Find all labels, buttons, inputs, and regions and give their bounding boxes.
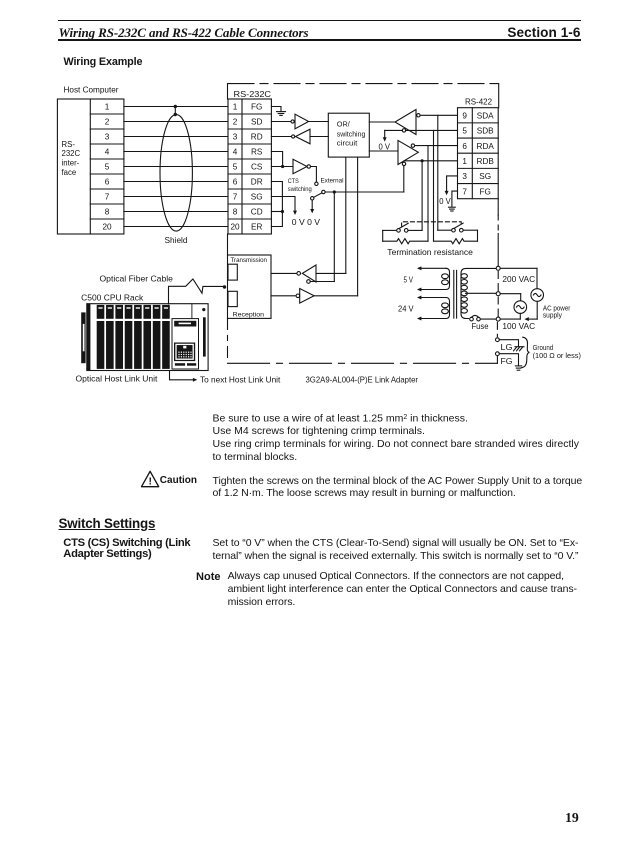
link adapter part label — [306, 376, 419, 385]
C500 CPU rack label — [81, 293, 144, 302]
switch settings heading — [59, 516, 156, 531]
optical reception receiver U8 — [271, 157, 358, 303]
svg-text:1: 1 — [105, 103, 110, 112]
200 VAC node — [496, 266, 500, 270]
svg-text:FG: FG — [480, 187, 491, 196]
svg-text:FG: FG — [251, 103, 262, 112]
svg-text:SDA: SDA — [477, 112, 494, 121]
to next host link unit arrow — [170, 371, 198, 382]
svg-text:Shield: Shield — [165, 236, 188, 245]
svg-text:6: 6 — [462, 142, 467, 151]
SDA wire — [420, 114, 457, 116]
transmission enable wire — [310, 192, 334, 282]
svg-text:RS-422: RS-422 — [465, 97, 492, 106]
svg-text:9: 9 — [462, 112, 467, 121]
RS-232C interface label — [62, 140, 81, 177]
svg-text:switching: switching — [337, 130, 366, 139]
CTS switching text — [213, 537, 579, 562]
svg-text:SD: SD — [251, 118, 262, 127]
transformer T1 5V secondary — [417, 266, 450, 291]
fuse F1 — [470, 315, 497, 320]
FG terminal wire — [499, 354, 518, 366]
svg-text:DR: DR — [251, 178, 263, 187]
svg-text:100 VAC: 100 VAC — [502, 321, 535, 331]
SDB termination wire — [433, 130, 435, 241]
svg-text:8: 8 — [233, 208, 238, 217]
svg-text:RD: RD — [251, 133, 263, 142]
svg-text:SDB: SDB — [477, 127, 494, 136]
svg-text:SG: SG — [251, 193, 263, 202]
svg-text:RS: RS — [251, 148, 263, 157]
svg-text:7: 7 — [233, 193, 238, 202]
svg-text:SG: SG — [479, 172, 491, 181]
RS to CS strap wire — [271, 152, 284, 169]
RD line receiver U2 — [271, 129, 328, 144]
LG chassis ground — [514, 347, 525, 351]
5 V label — [404, 276, 414, 285]
svg-text:7: 7 — [462, 187, 467, 196]
SDA termination wire — [437, 115, 439, 230]
link adapter dashed enclosure — [228, 84, 499, 364]
svg-text:6: 6 — [105, 178, 110, 187]
caution label — [160, 475, 197, 486]
optical fiber cable label — [100, 275, 174, 284]
svg-text:ER: ER — [251, 223, 262, 232]
transformer core — [454, 270, 457, 318]
FG terminal node — [496, 352, 500, 356]
shield label — [165, 236, 188, 245]
AC measurement dashed lines — [496, 272, 499, 337]
C500 CPU rack — [81, 304, 208, 371]
svg-text:Transmission: Transmission — [231, 257, 268, 264]
header bottom rule — [58, 39, 581, 42]
FG protective ground — [271, 107, 285, 116]
svg-text:0 V 0 V: 0 V 0 V — [292, 218, 321, 227]
svg-text:External: External — [321, 178, 344, 185]
svg-text:RDA: RDA — [477, 142, 495, 151]
OR/switching circuit U3 — [328, 113, 369, 157]
svg-text:inter-: inter- — [62, 159, 80, 168]
driver enable wire from CTS switch — [403, 166, 405, 192]
SDB wire — [406, 129, 458, 131]
svg-text:0 V: 0 V — [439, 197, 451, 206]
CS wire and CTS buffer U4 — [271, 159, 316, 181]
transformer primary — [461, 268, 497, 318]
AC return wires — [500, 301, 537, 321]
svg-text:232C: 232C — [62, 149, 81, 158]
header top rule — [58, 20, 581, 22]
RS-422 receiver U5 — [369, 110, 420, 135]
svg-text:CTS: CTS — [288, 178, 299, 185]
Ground label — [533, 345, 581, 360]
svg-text:OR/: OR/ — [337, 119, 350, 128]
AC source 200V — [531, 289, 544, 302]
svg-text:5 V: 5 V — [404, 276, 414, 285]
svg-text:1: 1 — [462, 157, 467, 166]
LG terminal wire — [499, 340, 518, 352]
caution text — [213, 475, 583, 500]
svg-text:CD: CD — [251, 208, 263, 217]
svg-text:6: 6 — [233, 178, 238, 187]
svg-text:0 V: 0 V — [379, 143, 391, 152]
RDA termination wire — [427, 146, 429, 242]
to next host link unit label — [200, 376, 281, 385]
FG to enclosure wire — [496, 356, 498, 364]
svg-text:FG: FG — [501, 356, 513, 366]
optical connector (reception) — [228, 291, 237, 306]
wires host to RS-232C connector — [124, 107, 228, 227]
svg-text:Host Computer: Host Computer — [64, 85, 119, 94]
ground brace — [521, 337, 529, 368]
svg-text:RDB: RDB — [477, 157, 495, 166]
svg-text:20: 20 — [102, 223, 112, 232]
page number — [565, 810, 579, 826]
svg-text:switching: switching — [288, 186, 312, 193]
fuse output node — [496, 317, 500, 321]
RS-232C connector box — [228, 99, 271, 234]
RS-422 connector label — [465, 97, 492, 106]
RS-422 connector box — [458, 108, 499, 199]
header section label — [0, 25, 581, 40]
svg-text:3: 3 — [462, 172, 467, 181]
svg-text:5: 5 — [233, 163, 238, 172]
RS-422 driver U6 — [369, 140, 418, 165]
svg-text:4: 4 — [105, 148, 110, 157]
svg-text:Ground: Ground — [533, 345, 554, 352]
RS-422 FG earth ground — [449, 191, 458, 211]
DR CD ER tie wire — [271, 182, 284, 227]
SG 0V wire — [271, 197, 297, 216]
note text — [228, 570, 577, 608]
termination switch S3 — [438, 223, 478, 232]
RDA wire — [415, 145, 458, 147]
optical host link unit label — [76, 374, 159, 383]
note label — [0, 571, 221, 583]
transmission reception unit box — [228, 255, 272, 319]
switch 0V arrow — [310, 200, 314, 213]
svg-text:4: 4 — [233, 148, 238, 157]
termination resistor R1 — [383, 230, 428, 243]
svg-text:face: face — [62, 168, 77, 177]
svg-text:(100 Ω or less): (100 Ω or less) — [533, 353, 581, 360]
24 V label — [398, 305, 414, 314]
fuse label — [472, 322, 489, 331]
svg-text:Reception: Reception — [233, 312, 265, 319]
svg-text:5: 5 — [105, 163, 110, 172]
100 VAC tap node — [496, 292, 500, 296]
AC power supply label — [543, 305, 571, 319]
200 VAC label — [502, 274, 535, 284]
0 V 0 V labels — [292, 218, 321, 227]
svg-text:3G2A9-AL004-(P)E Link Adapter: 3G2A9-AL004-(P)E Link Adapter — [306, 376, 419, 385]
svg-text:Optical Host Link Unit: Optical Host Link Unit — [76, 374, 159, 383]
100 VAC label — [502, 321, 535, 331]
svg-text:RS-: RS- — [62, 140, 76, 149]
SD line driver U1 — [271, 114, 328, 129]
body paragraph 1 — [213, 412, 579, 464]
svg-text:2: 2 — [105, 118, 110, 127]
transformer T1 24V secondary — [417, 296, 450, 321]
svg-text:200 VAC: 200 VAC — [502, 274, 535, 284]
LG terminal node — [496, 338, 500, 342]
svg-text:Termination resistance: Termination resistance — [387, 248, 473, 257]
FG earth ground — [515, 366, 521, 370]
svg-text:To next Host Link Unit: To next Host Link Unit — [200, 376, 281, 385]
termination dashed outline — [402, 222, 462, 227]
header title — [59, 25, 309, 41]
receiver 0V reference — [379, 130, 403, 151]
CTS selector switch S1 — [311, 182, 404, 200]
svg-text:supply: supply — [543, 313, 562, 320]
svg-text:circuit: circuit — [337, 138, 358, 147]
optical host link unit front — [172, 308, 206, 369]
svg-text:RS-232C: RS-232C — [234, 90, 272, 99]
optical connector (transmission) — [228, 264, 237, 280]
100 VAC wire to supply — [500, 294, 521, 301]
svg-text:3: 3 — [233, 133, 238, 142]
CTS switching label — [63, 538, 190, 560]
External label — [321, 178, 344, 185]
svg-text:7: 7 — [105, 193, 110, 202]
shield ellipse — [160, 105, 192, 231]
host computer interface box — [57, 99, 124, 234]
svg-text:5: 5 — [462, 127, 467, 136]
RS-422 SG 0V arrow — [439, 176, 457, 206]
RDB termination wire — [421, 161, 423, 231]
termination switch S2 — [383, 223, 422, 232]
svg-text:Fuse: Fuse — [472, 322, 489, 331]
200 VAC wire to supply — [500, 268, 537, 288]
svg-text:CS: CS — [251, 163, 263, 172]
svg-text:8: 8 — [105, 208, 110, 217]
RS-232C connector label — [234, 90, 272, 99]
svg-text:1: 1 — [233, 103, 238, 112]
RDB wire — [404, 159, 457, 162]
svg-text:3: 3 — [105, 133, 110, 142]
wiring example heading — [64, 56, 143, 68]
svg-text:AC power: AC power — [543, 305, 571, 312]
svg-text:LG: LG — [501, 342, 513, 352]
svg-text:20: 20 — [230, 223, 240, 232]
termination resistance label — [387, 248, 473, 257]
AC source 100V — [514, 301, 527, 314]
termination resistor R2 — [434, 230, 478, 244]
svg-text:Optical Fiber Cable: Optical Fiber Cable — [100, 275, 174, 284]
optical fiber cable — [169, 279, 227, 304]
svg-text:2: 2 — [233, 118, 238, 127]
host computer label — [64, 85, 119, 94]
svg-text:24 V: 24 V — [398, 305, 414, 314]
svg-text:C500 CPU Rack: C500 CPU Rack — [81, 293, 144, 302]
CTS switching label — [288, 178, 312, 193]
optical transmission driver U7 — [271, 157, 346, 283]
